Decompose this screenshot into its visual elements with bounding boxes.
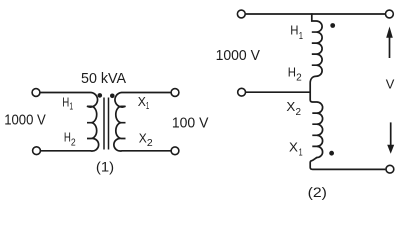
terminal bottom-right (diagram 2) [386, 165, 394, 173]
polarity dot top (diagram 2) [330, 23, 335, 28]
terminal top-right (diagram 2) [386, 10, 394, 18]
core line right [108, 98, 110, 150]
svg-text:100 V: 100 V [172, 116, 209, 132]
svg-text:H: H [62, 94, 69, 109]
polarity dot secondary (diagram 1) [110, 94, 115, 99]
polarity dot bottom (diagram 2) [329, 151, 334, 156]
svg-text:1: 1 [146, 101, 150, 112]
svg-text:X: X [139, 130, 147, 145]
svg-text:H: H [290, 23, 298, 38]
wire top rail (diagram 2) [246, 13, 386, 15]
autotransformer series winding H1-H2 and X2-X1 [310, 13, 385, 169]
svg-text:1: 1 [299, 148, 303, 159]
voltage arrow down (diagram 2) [390, 122, 392, 145]
secondary winding X1-X2 with lead wires [114, 93, 171, 152]
core line left [103, 98, 105, 150]
svg-text:X: X [138, 94, 146, 109]
svg-text:H: H [288, 65, 296, 80]
svg-text:2: 2 [71, 137, 76, 148]
svg-text:1: 1 [299, 31, 304, 42]
wire tap lead (diagram 2) [246, 91, 310, 93]
voltage arrow up (diagram 2) [389, 38, 391, 59]
terminal mid-left (diagram 2) [238, 88, 246, 96]
terminal H2 (diagram 1 bottom-left) [33, 147, 41, 155]
svg-text:1: 1 [69, 102, 73, 113]
polarity dot primary (diagram 1) [98, 93, 103, 98]
svg-text:(2): (2) [308, 184, 327, 200]
svg-text:50 kVA: 50 kVA [81, 71, 126, 87]
primary winding H1-H2 with lead wires [40, 93, 98, 152]
terminal H1 (diagram 1 top-left) [32, 89, 40, 97]
terminal X1 (diagram 1 top-right) [171, 89, 179, 97]
svg-text:1000 V: 1000 V [216, 48, 260, 64]
svg-text:X: X [286, 99, 295, 114]
svg-text:V: V [386, 76, 395, 91]
svg-text:H: H [64, 130, 71, 145]
terminal top-left (diagram 2) [237, 10, 245, 18]
svg-text:2: 2 [296, 107, 302, 118]
svg-text:2: 2 [147, 138, 153, 149]
svg-text:1000 V: 1000 V [4, 112, 46, 128]
terminal X2 (diagram 1 bottom-right) [171, 147, 179, 155]
svg-text:X: X [289, 139, 298, 154]
svg-text:(1): (1) [96, 158, 114, 174]
svg-text:2: 2 [296, 73, 302, 84]
